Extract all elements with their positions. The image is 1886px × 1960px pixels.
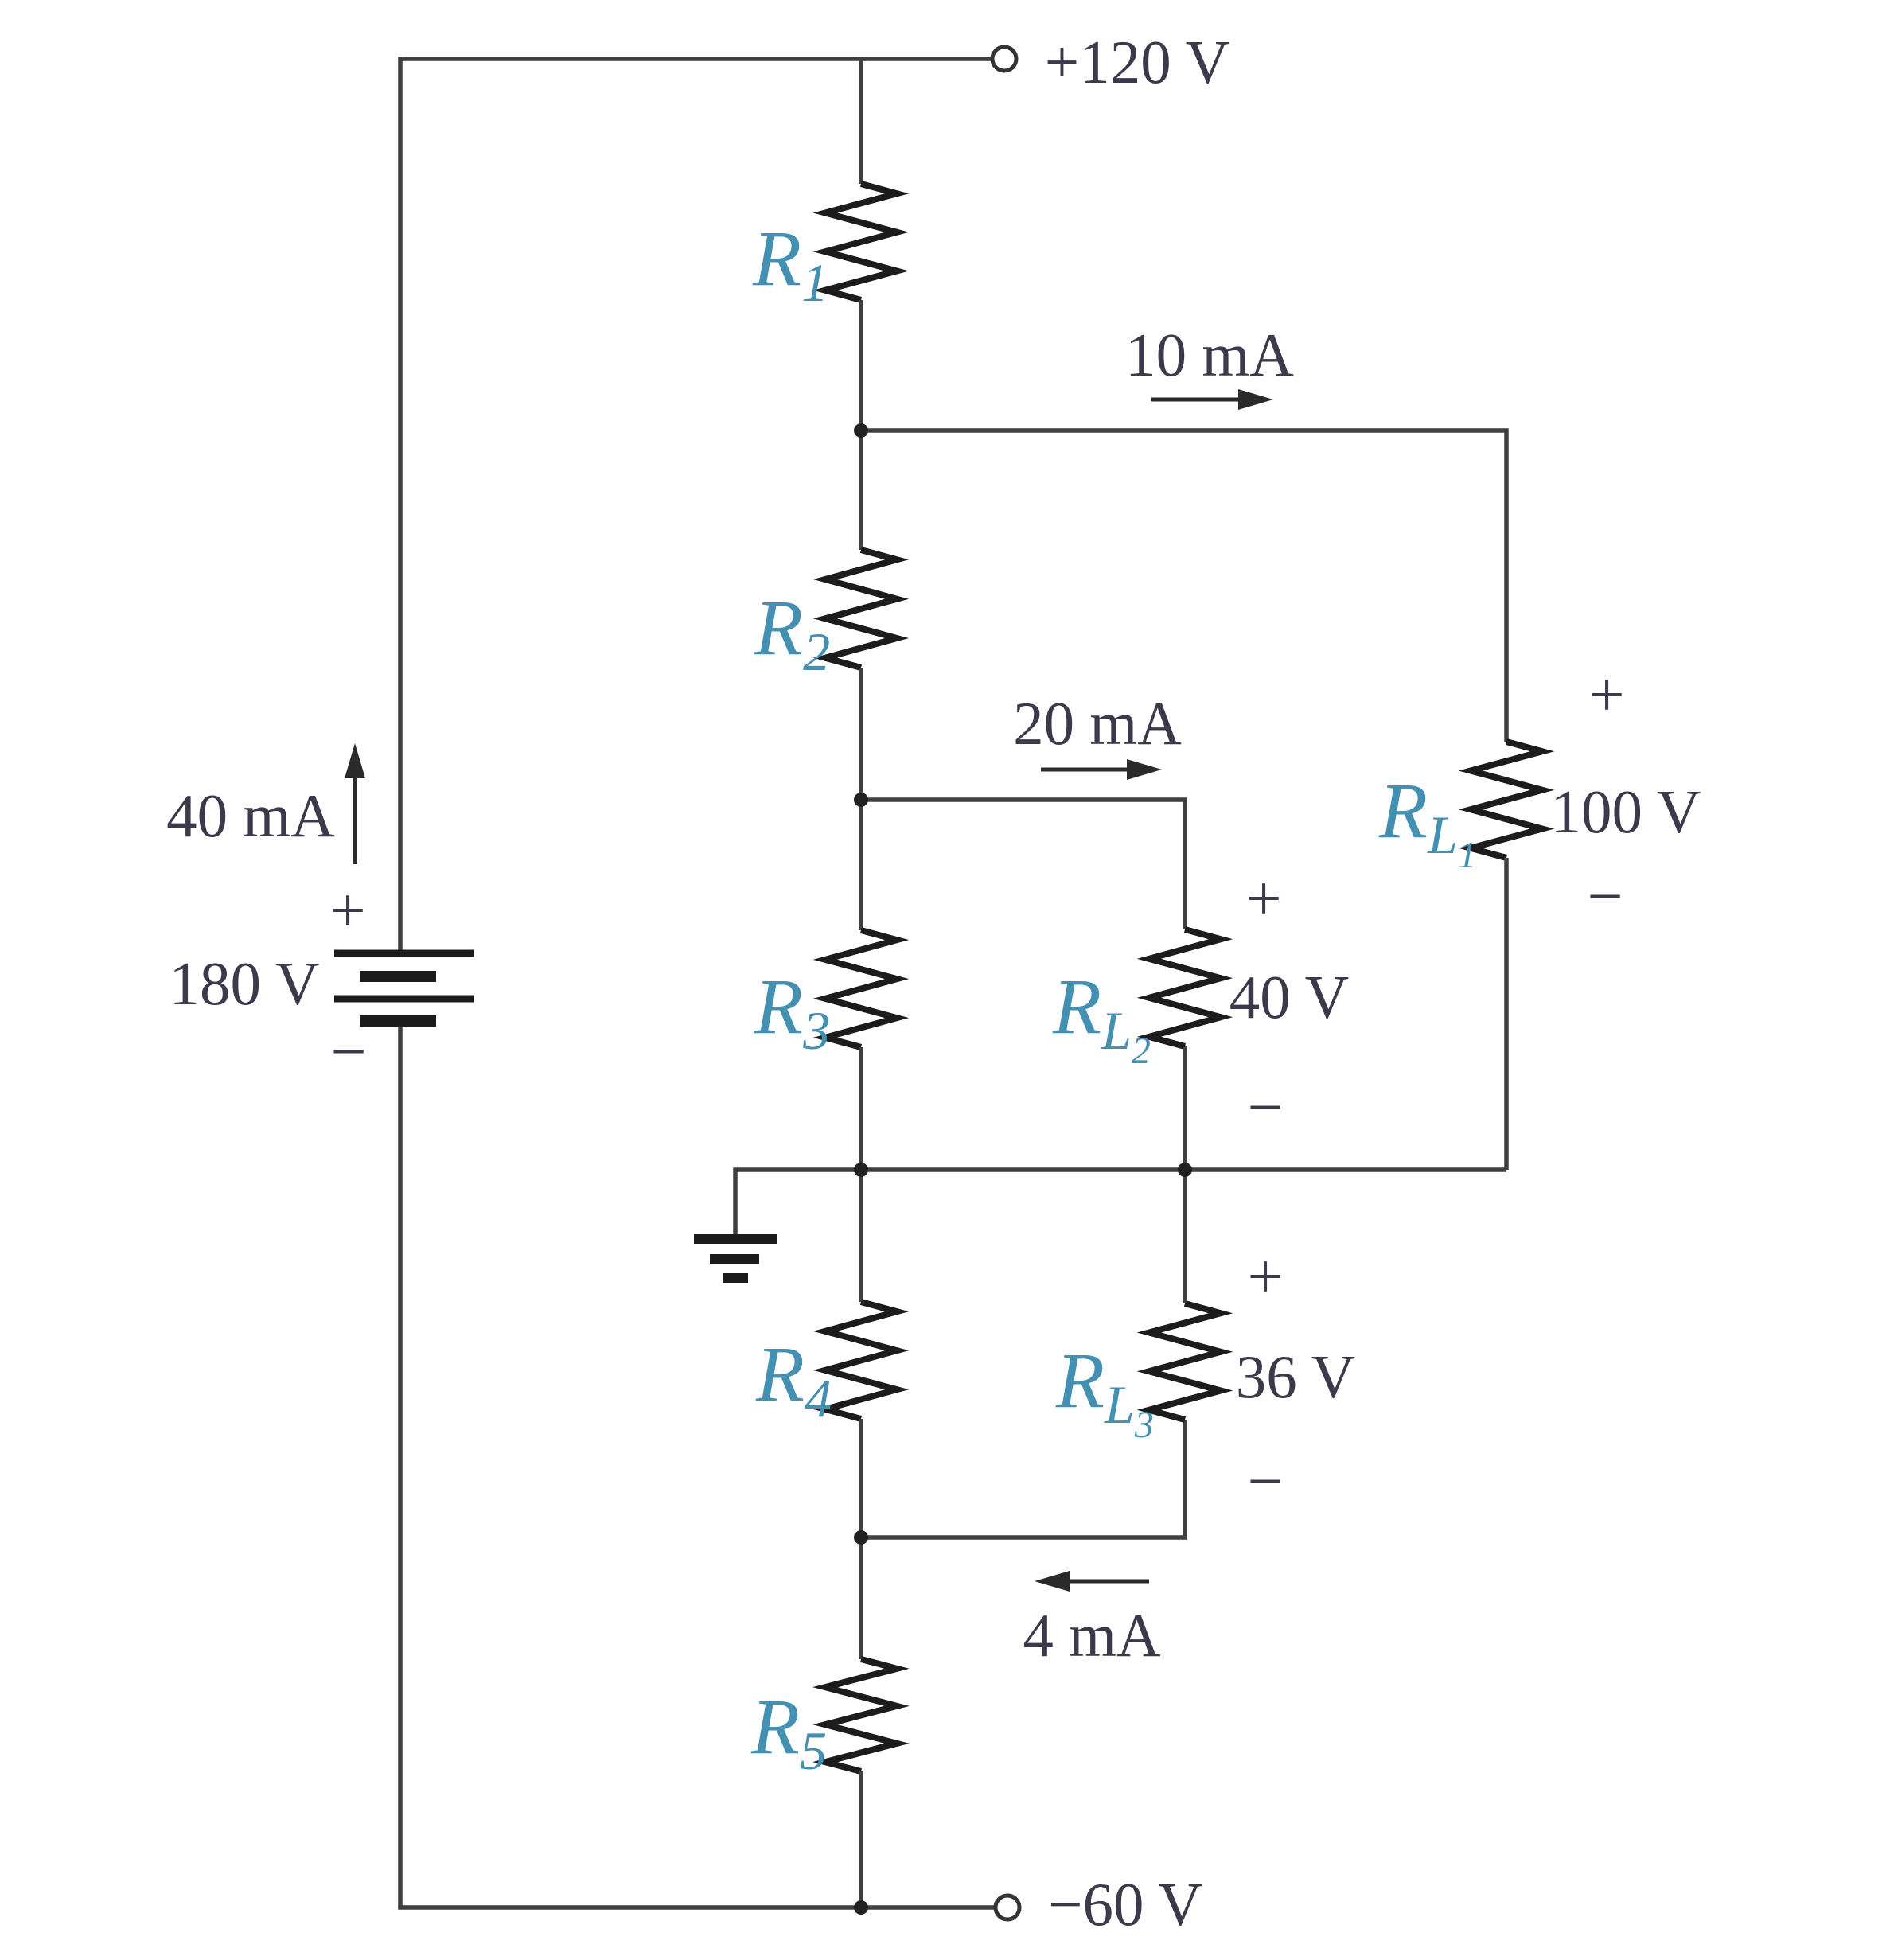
svg-text:−: − (330, 1017, 366, 1087)
svg-text:−: − (1247, 1447, 1283, 1517)
svg-text:+: + (1247, 1242, 1283, 1312)
svg-text:−60 V: −60 V (1048, 1870, 1202, 1939)
svg-text:−: − (1587, 862, 1623, 932)
svg-text:20 mA: 20 mA (1013, 689, 1182, 758)
svg-text:10 mA: 10 mA (1125, 321, 1294, 389)
svg-text:4 mA: 4 mA (1023, 1601, 1161, 1670)
svg-text:40 V: 40 V (1229, 963, 1349, 1031)
svg-text:+120 V: +120 V (1045, 28, 1229, 96)
svg-text:100 V: 100 V (1551, 777, 1701, 846)
svg-text:+: + (1588, 660, 1624, 731)
svg-text:40 mA: 40 mA (166, 781, 335, 850)
svg-text:180 V: 180 V (170, 949, 320, 1018)
svg-text:36 V: 36 V (1236, 1342, 1355, 1411)
svg-text:+: + (1245, 864, 1281, 934)
svg-text:−: − (1247, 1073, 1283, 1143)
svg-text:+: + (329, 876, 365, 946)
